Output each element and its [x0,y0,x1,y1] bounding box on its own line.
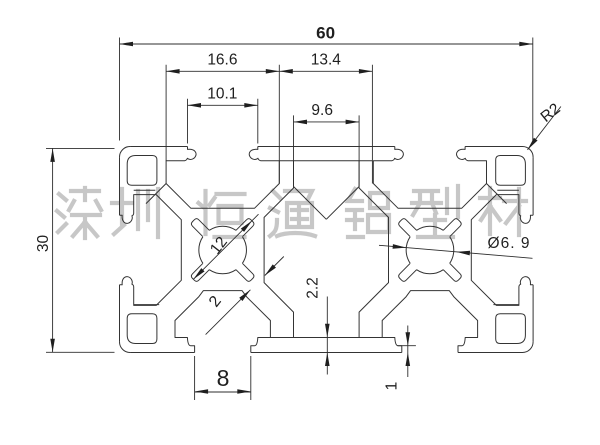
profile outer corner bottom-left [120,342,131,353]
dimension 60 top [120,38,533,143]
dimension diameter 6.9 leader [379,245,533,258]
top T-slot cavity left cell (10.1 mouth / 16.6 inner) [166,147,279,209]
watermark character [199,191,245,237]
dimension 2.2 floor thickness [326,297,328,375]
dimension 1 lip thickness [397,326,416,378]
svg-text:Ø6. 9: Ø6. 9 [488,235,531,252]
svg-text:2.2: 2.2 [305,277,322,299]
svg-text:13.4: 13.4 [311,51,342,68]
wire bottom face segments [130,352,522,354]
dimension 2 web thickness [206,257,284,335]
svg-text:10.1: 10.1 [207,86,237,103]
svg-text:60: 60 [316,24,335,43]
dimension 16.6 [166,65,279,184]
center screw hole with keyway slots left cell [191,219,254,282]
svg-text:8: 8 [217,365,230,391]
dimension 30 left [46,148,115,352]
watermark character [412,186,458,237]
end-face T-slot cavity left cell [120,195,182,306]
corner square hole top-left [127,156,157,186]
svg-text:9.6: 9.6 [311,102,333,119]
watermark character [480,188,526,235]
dimension 13.4 [279,65,372,184]
cap underside over webs [270,161,382,338]
dimension 10.1 [188,99,258,144]
watermark character [347,189,389,237]
corner square hole bottom-left [127,314,157,344]
corner screw-block boundary bottom-left [134,304,160,306]
corner screw-block boundary top-left [134,184,166,204]
dimension 9.6 [294,115,360,186]
svg-text:30: 30 [35,235,52,253]
center channel cavity (9.6 neck) [264,161,388,338]
svg-text:16.6: 16.6 [207,51,237,68]
right cell interior (mirrored) [373,147,533,353]
bottom T-slot cavity left cell (8 mouth) [175,291,270,353]
web edges under center tongue [294,187,360,220]
dimension R2 leader [528,107,561,150]
wire top face segments [130,146,522,148]
watermark character [112,189,158,237]
watermark character [57,188,101,238]
profile outer corner top-right [523,147,534,158]
svg-text:1: 1 [383,382,400,391]
watermark character [270,191,315,236]
profile outer corner bottom-right [523,342,534,353]
dimension 12 across keyways [193,214,258,279]
profile outer corner top-left [120,147,131,158]
wire right face segments [532,157,534,342]
dimension 8 bottom [195,356,251,400]
wire left face segments [119,157,121,342]
left cell interior [120,147,280,353]
